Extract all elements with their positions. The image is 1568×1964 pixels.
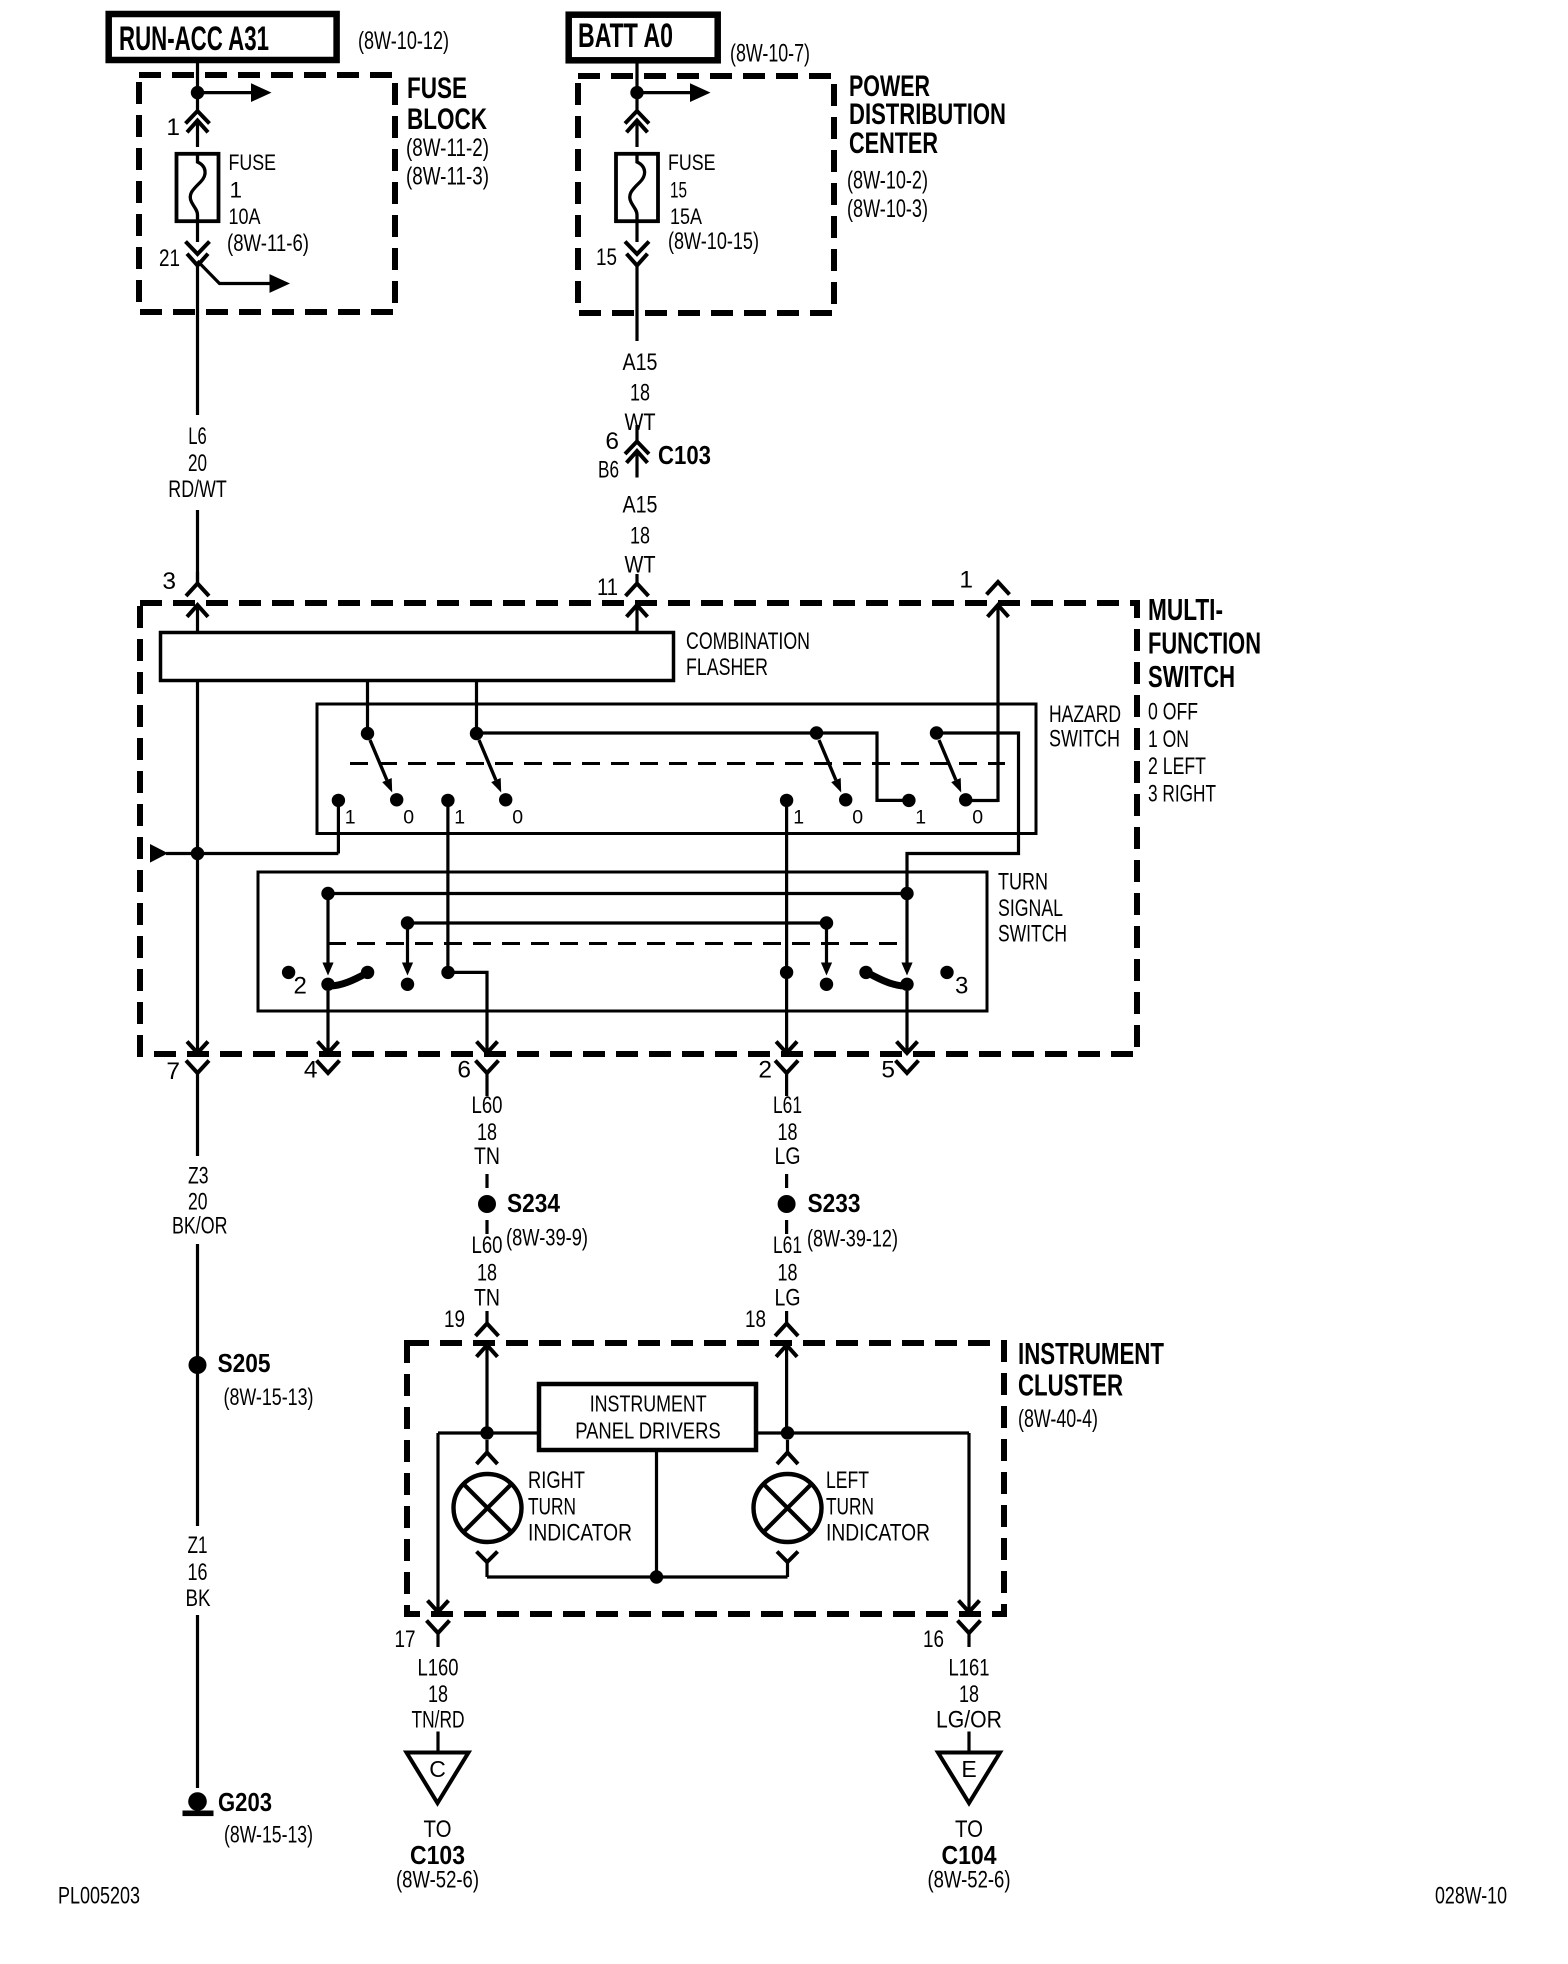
- svg-text:(8W-10-2): (8W-10-2): [847, 167, 928, 195]
- svg-text:18: 18: [778, 1119, 798, 1146]
- svg-text:3: 3: [955, 973, 968, 1000]
- svg-text:S205: S205: [218, 1348, 271, 1378]
- hazard contact 0 (pole4): [959, 793, 972, 806]
- svg-text:LG: LG: [775, 1285, 801, 1312]
- svg-text:0: 0: [972, 807, 983, 829]
- hazard contact 1 (pole1): [332, 794, 345, 807]
- wire L61 upper segment: [785, 1087, 788, 1096]
- svg-text:(8W-15-13): (8W-15-13): [224, 1822, 313, 1849]
- svg-text:0: 0: [852, 807, 863, 829]
- svg-text:PANEL DRIVERS: PANEL DRIVERS: [575, 1418, 721, 1444]
- svg-text:20: 20: [188, 450, 207, 477]
- hazard pole P4 pivot: [930, 726, 943, 739]
- TSS right wiper: [869, 974, 905, 987]
- svg-text:COMBINATION: COMBINATION: [686, 628, 810, 655]
- splice S205: [189, 1356, 207, 1374]
- connector pin 16 (IC bottom): [959, 1601, 980, 1613]
- svg-text:(8W-52-6): (8W-52-6): [928, 1867, 1011, 1894]
- wire drivers box down to ground bus: [655, 1452, 658, 1577]
- node TSS second bus left: [401, 916, 414, 929]
- hazard arm pole 1: [370, 740, 387, 780]
- svg-text:FLASHER: FLASHER: [686, 654, 768, 681]
- connector pin 19 (instrument cluster): [485, 1311, 488, 1324]
- wire hazard P2 to P3: [477, 731, 817, 734]
- svg-text:BATT A0: BATT A0: [578, 17, 673, 55]
- TSS right wiper pivot: [900, 978, 913, 991]
- svg-text:PL005203: PL005203: [58, 1883, 140, 1910]
- svg-text:1 ON: 1 ON: [1148, 726, 1189, 753]
- svg-text:INDICATOR: INDICATOR: [528, 1520, 632, 1547]
- wire drop to pin 16: [967, 1433, 970, 1612]
- hazard contact 0 (pole2): [499, 793, 512, 806]
- svg-text:SIGNAL: SIGNAL: [998, 895, 1063, 922]
- wire L60 upper segment: [485, 1087, 488, 1096]
- wire hazard P4 loop to turn signal switch: [907, 733, 1019, 894]
- connector pin 7 (MFS bottom): [187, 1042, 208, 1054]
- svg-text:(8W-10-12): (8W-10-12): [358, 27, 449, 55]
- TSS drop arrow to left wiper pivot: [326, 900, 329, 964]
- branch arrow to other circuits (fuse block top): [198, 91, 252, 94]
- instrument cluster dashed enclosure: [407, 1343, 1004, 1614]
- TSS contact 2 (left end): [282, 966, 295, 979]
- branch arrow to other circuits (PDC): [637, 91, 690, 94]
- svg-text:11: 11: [597, 574, 618, 601]
- svg-text:A15: A15: [623, 349, 658, 376]
- hazard pole P3 pivot: [810, 726, 823, 739]
- svg-text:TO: TO: [955, 1816, 983, 1843]
- wire hazard contact1 pole3 down to TSS: [785, 800, 788, 972]
- wire hazard contact1 pole1 down: [337, 800, 340, 853]
- node junction on pin7 wire: [191, 847, 204, 860]
- svg-text:C103: C103: [410, 1840, 465, 1870]
- branch tap arrow to other circuits (fuse block bottom): [198, 261, 270, 284]
- TSS travel dashed line: [328, 942, 907, 945]
- svg-text:FUSE: FUSE: [229, 150, 277, 175]
- connector pin 2 (MFS bottom): [776, 1042, 797, 1054]
- svg-text:(8W-39-9): (8W-39-9): [506, 1225, 588, 1252]
- TSS drop arrow right (second bus): [825, 929, 828, 964]
- svg-text:WT: WT: [625, 552, 656, 579]
- svg-text:16: 16: [923, 1626, 944, 1653]
- svg-text:E: E: [961, 1756, 976, 1782]
- svg-text:(8W-10-15): (8W-10-15): [668, 228, 759, 255]
- svg-text:BK: BK: [186, 1585, 212, 1612]
- wire A15 segment above C103: [635, 266, 638, 342]
- node TSS second bus right: [820, 916, 833, 929]
- turn signal switch box: [258, 872, 987, 1011]
- wire L160 to off-page connector: [436, 1732, 439, 1753]
- svg-text:1: 1: [166, 114, 180, 141]
- svg-text:0 OFF: 0 OFF: [1148, 699, 1198, 726]
- hazard switch travel dashed line: [350, 762, 1005, 765]
- off-page connector E (to C104): [938, 1753, 1000, 1804]
- wire flasher to hazard pole P2: [475, 682, 478, 734]
- wire L161 to off-page connector: [967, 1732, 970, 1753]
- connector pin 4 (MFS bottom): [318, 1042, 339, 1054]
- svg-text:TN/RD: TN/RD: [412, 1707, 465, 1734]
- svg-text:1: 1: [959, 567, 973, 594]
- svg-text:CENTER: CENTER: [849, 127, 938, 160]
- svg-text:20: 20: [188, 1189, 208, 1216]
- wire fuse F1 output: [196, 223, 199, 242]
- svg-text:BK/OR: BK/OR: [172, 1213, 228, 1240]
- svg-text:1: 1: [793, 807, 804, 829]
- connector pin 17 (IC bottom): [428, 1601, 449, 1613]
- connector pin 1 (MFS top): [987, 582, 1010, 595]
- wire L6 upper segment: [196, 266, 199, 416]
- hazard contact 0 (pole1): [390, 793, 403, 806]
- svg-text:FUSE: FUSE: [668, 150, 716, 175]
- svg-text:SWITCH: SWITCH: [998, 921, 1067, 948]
- svg-text:10A: 10A: [229, 204, 261, 229]
- svg-text:0: 0: [512, 807, 523, 829]
- svg-text:A15: A15: [623, 492, 658, 519]
- svg-text:18: 18: [745, 1306, 766, 1333]
- wire TSS contact to pin 2: [785, 979, 788, 1053]
- svg-text:18: 18: [630, 523, 650, 550]
- hazard contact 1 (pole4): [902, 794, 915, 807]
- TSS contact from hazard pole2: [441, 966, 454, 979]
- fuse F1 10A: [177, 154, 219, 221]
- svg-text:2: 2: [758, 1057, 772, 1084]
- TSS second bus wire: [408, 921, 827, 924]
- svg-text:18: 18: [630, 380, 650, 407]
- power feed box RUN-ACC A31: [109, 14, 337, 60]
- wire fuse F15 output: [635, 223, 638, 242]
- svg-text:(8W-11-6): (8W-11-6): [227, 230, 309, 257]
- wire junction down to pin 7: [196, 854, 199, 1054]
- svg-text:2: 2: [294, 973, 307, 1000]
- node right indicator feed junction: [480, 1426, 493, 1439]
- TSS contact 3 (right end): [940, 966, 953, 979]
- connector pin 5 (MFS bottom): [897, 1042, 918, 1054]
- svg-text:WT: WT: [625, 409, 656, 436]
- off-page connector C (to C103): [407, 1753, 469, 1804]
- svg-text:4: 4: [304, 1057, 318, 1084]
- node left indicator feed junction: [781, 1426, 794, 1439]
- wire MFS pin1 to pole4 contact 0: [966, 799, 998, 802]
- svg-text:18: 18: [778, 1260, 798, 1287]
- svg-text:18: 18: [428, 1681, 448, 1708]
- connector pin 18 (instrument cluster): [785, 1311, 788, 1324]
- svg-text:(8W-11-3): (8W-11-3): [406, 163, 489, 191]
- wire TSS pivot to pin 5: [905, 991, 908, 1053]
- svg-text:C104: C104: [942, 1840, 997, 1870]
- svg-text:B6: B6: [598, 457, 619, 484]
- svg-text:TURN: TURN: [998, 869, 1048, 896]
- svg-text:3 RIGHT: 3 RIGHT: [1148, 781, 1216, 808]
- TSS contact from hazard pole3: [780, 966, 793, 979]
- wire TSS contact to pin 6: [448, 972, 487, 1053]
- svg-text:Z3: Z3: [188, 1163, 209, 1190]
- wire Z3 upper segment: [196, 1087, 199, 1156]
- svg-text:15: 15: [596, 244, 617, 271]
- svg-text:TO: TO: [424, 1816, 452, 1843]
- svg-text:LG/OR: LG/OR: [936, 1707, 1002, 1734]
- svg-text:0: 0: [403, 807, 414, 829]
- TSS upper bus wire: [328, 892, 907, 895]
- wire TSS pivot to pin 4: [326, 991, 329, 1053]
- connector pin 6 (MFS bottom): [477, 1042, 498, 1054]
- in-line connector C103: [625, 442, 649, 455]
- svg-text:2 LEFT: 2 LEFT: [1148, 753, 1206, 780]
- hazard arm pole 2: [479, 740, 496, 780]
- fuse F15 15A: [616, 154, 658, 221]
- hazard arm pole 4: [939, 740, 956, 780]
- svg-text:LEFT: LEFT: [826, 1467, 869, 1494]
- svg-text:18: 18: [477, 1119, 497, 1146]
- wire Z1 lower segment: [196, 1615, 199, 1788]
- svg-text:TN: TN: [474, 1143, 500, 1170]
- hazard contact 1 (pole2): [441, 794, 454, 807]
- svg-text:3: 3: [162, 568, 176, 595]
- svg-text:INSTRUMENT: INSTRUMENT: [590, 1391, 707, 1417]
- indicator ground bus: [487, 1575, 788, 1578]
- svg-text:19: 19: [444, 1306, 465, 1333]
- wire RUN-ACC feed into fuse block: [196, 60, 199, 111]
- svg-text:(8W-52-6): (8W-52-6): [396, 1867, 479, 1894]
- TSS contact below second bus right: [820, 978, 833, 991]
- svg-text:6: 6: [457, 1057, 471, 1084]
- hazard contact 0 (pole3): [839, 793, 852, 806]
- TSS right wiper contact: [859, 966, 872, 979]
- svg-text:INSTRUMENT: INSTRUMENT: [1018, 1336, 1164, 1371]
- svg-text:C: C: [429, 1756, 446, 1782]
- power distribution center dashed enclosure: [578, 76, 834, 313]
- wire flasher-left down to junction: [196, 682, 199, 854]
- svg-text:16: 16: [188, 1559, 208, 1586]
- node ground bus junction: [650, 1570, 663, 1583]
- connector pin 21 (fuse block): [186, 242, 210, 255]
- svg-text:L60: L60: [472, 1092, 503, 1119]
- svg-text:C103: C103: [658, 440, 711, 470]
- wire BATT feed into PDC: [635, 60, 638, 111]
- combination flasher box: [161, 633, 674, 681]
- svg-text:1: 1: [915, 807, 926, 829]
- svg-text:RD/WT: RD/WT: [168, 476, 227, 503]
- svg-text:17: 17: [395, 1626, 416, 1653]
- right indicator lower terminal: [477, 1552, 498, 1563]
- svg-text:INDICATOR: INDICATOR: [826, 1520, 930, 1547]
- svg-text:L61: L61: [773, 1092, 802, 1119]
- wire Z3 lower segment to S205: [196, 1244, 199, 1526]
- svg-text:SWITCH: SWITCH: [1148, 660, 1235, 694]
- svg-text:1: 1: [345, 807, 356, 829]
- TSS drop arrow to right wiper pivot: [905, 900, 908, 964]
- TSS contact below second bus left: [401, 978, 414, 991]
- node TSS upper bus left: [321, 887, 334, 900]
- wire drop to pin 17: [436, 1433, 439, 1612]
- hazard pole P2 pivot: [470, 727, 483, 740]
- svg-text:15: 15: [670, 178, 687, 203]
- splice S233 with dashed stubs: [785, 1174, 788, 1188]
- hazard contact 1 (pole3): [780, 794, 793, 807]
- svg-text:L6: L6: [188, 423, 207, 450]
- wire L6 lower segment: [196, 510, 199, 584]
- power feed box BATT A0: [569, 15, 718, 61]
- lamp RIGHT TURN INDICATOR: [454, 1474, 522, 1542]
- multi-function switch dashed enclosure: [140, 603, 1137, 1054]
- instrument panel drivers box: [539, 1384, 756, 1450]
- svg-text:SWITCH: SWITCH: [1049, 726, 1120, 753]
- svg-text:L160: L160: [418, 1655, 459, 1682]
- wire drivers box to pin 17 drop: [438, 1431, 539, 1434]
- svg-text:TURN: TURN: [826, 1494, 874, 1521]
- left indicator terminal chevron: [786, 1440, 789, 1453]
- TSS drop arrow left (second bus): [406, 929, 409, 964]
- svg-text:L61: L61: [773, 1232, 802, 1259]
- svg-text:5: 5: [881, 1057, 895, 1084]
- connector pin 15 (PDC): [625, 242, 649, 255]
- ground G203: [188, 1792, 207, 1811]
- TSS left wiper: [331, 974, 367, 987]
- svg-text:L161: L161: [949, 1655, 990, 1682]
- TSS left wiper contact: [361, 966, 374, 979]
- connector pin 1 (fuse block): [186, 111, 210, 124]
- svg-text:(8W-10-3): (8W-10-3): [847, 195, 928, 223]
- right indicator terminal chevron: [485, 1440, 488, 1453]
- hazard pole P1 pivot: [361, 727, 374, 740]
- connector pin 11 (MFS top): [635, 574, 638, 584]
- wire hazard contact1 pole2 down to TSS: [446, 800, 449, 972]
- svg-text:HAZARD: HAZARD: [1049, 701, 1121, 728]
- svg-text:RUN-ACC A31: RUN-ACC A31: [119, 20, 269, 58]
- node PDC feed junction: [630, 86, 643, 99]
- hazard arm pole 3: [819, 740, 836, 780]
- svg-text:(8W-15-13): (8W-15-13): [224, 1384, 314, 1411]
- wire drivers box to pin 16 drop: [756, 1431, 969, 1434]
- svg-text:21: 21: [159, 245, 180, 272]
- svg-text:BLOCK: BLOCK: [407, 103, 488, 136]
- svg-text:CLUSTER: CLUSTER: [1018, 1368, 1123, 1403]
- svg-text:(8W-39-12): (8W-39-12): [807, 1226, 898, 1253]
- svg-text:S234: S234: [507, 1188, 560, 1218]
- node fuse block feed junction: [191, 86, 204, 99]
- splice S234 with dashed stubs: [485, 1174, 488, 1188]
- fuse block dashed enclosure: [139, 75, 395, 312]
- svg-text:TURN: TURN: [528, 1494, 576, 1521]
- svg-text:S233: S233: [808, 1188, 861, 1218]
- connector pin 3 (MFS top): [196, 572, 199, 584]
- wire hazard P3 to pole4 contact 1: [817, 733, 909, 800]
- svg-text:MULTI-: MULTI-: [1148, 593, 1223, 627]
- svg-text:RIGHT: RIGHT: [528, 1467, 585, 1494]
- svg-text:LG: LG: [775, 1143, 801, 1170]
- TSS left wiper pivot: [321, 978, 334, 991]
- svg-text:15A: 15A: [670, 204, 702, 229]
- wire flasher to hazard pole P1: [366, 682, 369, 734]
- wire stub into C103: [635, 425, 638, 442]
- connector pin (PDC top): [625, 111, 649, 124]
- svg-text:L60: L60: [472, 1232, 503, 1259]
- svg-text:FUSE: FUSE: [407, 72, 467, 105]
- svg-text:1: 1: [454, 807, 465, 829]
- node TSS upper bus right: [900, 887, 913, 900]
- branch arrow entering MFS at left: [150, 844, 168, 863]
- svg-text:6: 6: [605, 428, 619, 455]
- svg-text:7: 7: [166, 1058, 180, 1085]
- left indicator lower terminal: [777, 1552, 798, 1563]
- svg-text:18: 18: [959, 1681, 979, 1708]
- hazard switch box: [317, 704, 1036, 834]
- svg-text:(8W-40-4): (8W-40-4): [1018, 1405, 1098, 1433]
- svg-text:Z1: Z1: [188, 1532, 208, 1559]
- svg-text:TN: TN: [474, 1285, 500, 1312]
- svg-text:028W-10: 028W-10: [1435, 1883, 1507, 1910]
- svg-text:FUNCTION: FUNCTION: [1148, 627, 1261, 661]
- svg-text:1: 1: [230, 178, 243, 203]
- svg-text:G203: G203: [218, 1787, 272, 1817]
- svg-text:(8W-10-7): (8W-10-7): [730, 40, 810, 68]
- svg-text:18: 18: [477, 1260, 497, 1287]
- svg-text:(8W-11-2): (8W-11-2): [406, 134, 489, 162]
- lamp LEFT TURN INDICATOR: [754, 1474, 822, 1542]
